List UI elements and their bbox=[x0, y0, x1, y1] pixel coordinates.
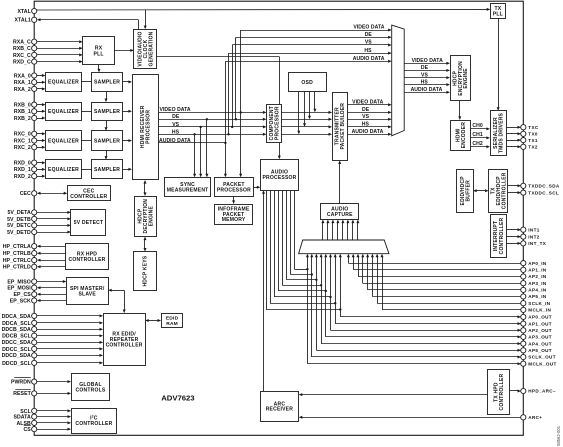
svg-text:TX1: TX1 bbox=[528, 138, 538, 143]
svg-text:RXD_0: RXD_0 bbox=[14, 161, 31, 167]
svg-text:PROCESSOR: PROCESSOR bbox=[146, 110, 152, 144]
svg-text:AP0_IN: AP0_IN bbox=[528, 261, 547, 266]
svg-text:ADV7623: ADV7623 bbox=[161, 393, 194, 402]
svg-text:RXC_0: RXC_0 bbox=[14, 132, 31, 138]
svg-text:EP_SCK: EP_SCK bbox=[10, 298, 31, 304]
svg-text:PWRDN: PWRDN bbox=[11, 380, 31, 386]
svg-text:EP_MISO: EP_MISO bbox=[7, 279, 30, 285]
svg-text:EP_MOSI: EP_MOSI bbox=[7, 286, 31, 292]
svg-text:DDCC_SCL: DDCC_SCL bbox=[2, 347, 31, 353]
svg-text:5V DETECT: 5V DETECT bbox=[74, 220, 104, 226]
svg-text:AP2_IN: AP2_IN bbox=[528, 274, 547, 279]
svg-text:HS: HS bbox=[364, 48, 372, 54]
svg-text:TXC: TXC bbox=[528, 125, 539, 130]
svg-text:5V_DETB: 5V_DETB bbox=[7, 217, 31, 223]
svg-text:RXC_C: RXC_C bbox=[13, 53, 31, 59]
svg-text:VIDEO DATA: VIDEO DATA bbox=[353, 25, 384, 31]
svg-text:RXD_C: RXD_C bbox=[13, 60, 31, 66]
svg-text:AP1_IN: AP1_IN bbox=[528, 268, 547, 273]
svg-text:HS: HS bbox=[421, 79, 429, 85]
svg-text:DDCB_SCL: DDCB_SCL bbox=[2, 334, 31, 340]
svg-text:MCLK_OUT: MCLK_OUT bbox=[528, 361, 556, 366]
svg-text:DDCD_SCL: DDCD_SCL bbox=[2, 361, 31, 367]
svg-text:TMDS DRIVERS: TMDS DRIVERS bbox=[499, 112, 505, 153]
svg-text:5V_DETC: 5V_DETC bbox=[7, 223, 31, 229]
svg-text:EQUALIZER: EQUALIZER bbox=[48, 109, 79, 115]
svg-text:SAMPLER: SAMPLER bbox=[94, 109, 120, 115]
svg-text:AP4_IN: AP4_IN bbox=[528, 288, 547, 293]
svg-text:HS: HS bbox=[362, 122, 370, 128]
svg-text:ENGINE: ENGINE bbox=[463, 68, 469, 89]
svg-text:HP_CTRLD: HP_CTRLD bbox=[3, 265, 31, 271]
svg-text:MEMORY: MEMORY bbox=[222, 217, 246, 223]
svg-text:SCLK_IN: SCLK_IN bbox=[528, 301, 550, 306]
svg-text:CONTROLLER: CONTROLLER bbox=[75, 421, 112, 427]
svg-text:CS: CS bbox=[23, 427, 31, 433]
svg-text:AP3_OUT: AP3_OUT bbox=[528, 335, 552, 340]
svg-text:PROCESSOR: PROCESSOR bbox=[275, 106, 281, 140]
svg-text:VIDEO DATA: VIDEO DATA bbox=[412, 58, 443, 64]
svg-text:PROCESSOR: PROCESSOR bbox=[217, 187, 251, 193]
svg-text:AUDIO DATA: AUDIO DATA bbox=[159, 138, 191, 144]
svg-text:EQUALIZER: EQUALIZER bbox=[48, 138, 79, 144]
svg-text:RXB_2: RXB_2 bbox=[14, 116, 31, 122]
svg-text:XTAL: XTAL bbox=[17, 9, 31, 15]
svg-text:TXDDC_SCL: TXDDC_SCL bbox=[528, 190, 559, 195]
svg-text:SCLK_OUT: SCLK_OUT bbox=[528, 355, 556, 360]
svg-text:DE: DE bbox=[172, 114, 180, 120]
svg-text:RXA_2: RXA_2 bbox=[14, 87, 31, 93]
svg-text:INT_TX: INT_TX bbox=[528, 241, 547, 246]
svg-text:PROCESSOR: PROCESSOR bbox=[262, 175, 296, 181]
svg-text:AUDIO DATA: AUDIO DATA bbox=[411, 87, 443, 93]
svg-text:GENERATION: GENERATION bbox=[149, 31, 155, 66]
svg-text:CH0: CH0 bbox=[472, 123, 482, 129]
svg-text:HS: HS bbox=[172, 129, 180, 135]
svg-text:OSD: OSD bbox=[301, 80, 313, 86]
svg-text:CH2: CH2 bbox=[472, 141, 482, 147]
svg-text:HPD_ARC–: HPD_ARC– bbox=[528, 389, 556, 394]
svg-text:MEASUREMENT: MEASUREMENT bbox=[167, 187, 209, 193]
svg-text:RXD_2: RXD_2 bbox=[14, 174, 31, 180]
svg-text:DDCC_SDA: DDCC_SDA bbox=[2, 340, 31, 346]
svg-text:TX0: TX0 bbox=[528, 132, 538, 137]
svg-text:RECEIVER: RECEIVER bbox=[266, 407, 294, 413]
svg-text:SLAVE: SLAVE bbox=[78, 291, 96, 297]
svg-text:TX2: TX2 bbox=[528, 145, 538, 150]
svg-text:CONTROLLER: CONTROLLER bbox=[70, 194, 107, 200]
svg-text:RXD_1: RXD_1 bbox=[14, 167, 31, 173]
svg-text:RAM: RAM bbox=[166, 321, 178, 327]
svg-text:HP_CTRLB: HP_CTRLB bbox=[3, 251, 31, 257]
svg-text:5V_DETD: 5V_DETD bbox=[7, 230, 31, 236]
svg-text:TXDDC_SDA: TXDDC_SDA bbox=[528, 184, 560, 189]
svg-text:RXB_C: RXB_C bbox=[13, 46, 31, 52]
svg-text:DE: DE bbox=[362, 107, 370, 113]
svg-text:CONTROLLER: CONTROLLER bbox=[106, 343, 143, 349]
svg-text:PACKET BUILDER: PACKET BUILDER bbox=[340, 103, 346, 150]
svg-text:VS: VS bbox=[362, 114, 369, 120]
svg-text:EQUALIZER: EQUALIZER bbox=[48, 167, 79, 173]
svg-text:ENGINE: ENGINE bbox=[149, 206, 155, 227]
svg-text:CONTROLLER: CONTROLLER bbox=[499, 374, 505, 411]
svg-text:PLL: PLL bbox=[493, 11, 503, 17]
svg-text:CEC: CEC bbox=[20, 191, 31, 197]
svg-text:RXA_C: RXA_C bbox=[13, 40, 31, 46]
svg-text:DE: DE bbox=[365, 32, 373, 38]
svg-text:CONTROLLER: CONTROLLER bbox=[499, 217, 505, 254]
svg-text:CH1: CH1 bbox=[472, 132, 482, 138]
svg-text:SAMPLER: SAMPLER bbox=[94, 167, 120, 173]
svg-text:AP2_OUT: AP2_OUT bbox=[528, 328, 552, 333]
svg-text:AP5_OUT: AP5_OUT bbox=[528, 348, 552, 353]
svg-text:VS: VS bbox=[365, 40, 372, 46]
svg-text:AUDIO DATA: AUDIO DATA bbox=[353, 56, 385, 62]
svg-text:HDCP KEYS: HDCP KEYS bbox=[143, 255, 149, 286]
svg-text:AUDIO DATA: AUDIO DATA bbox=[352, 129, 384, 135]
svg-text:HP_CTRLA: HP_CTRLA bbox=[3, 244, 31, 250]
svg-text:DDCA_SDA: DDCA_SDA bbox=[2, 314, 31, 320]
svg-text:DDCB_SDA: DDCB_SDA bbox=[2, 327, 31, 333]
svg-text:EP_CS: EP_CS bbox=[14, 292, 32, 298]
svg-text:5V_DETA: 5V_DETA bbox=[7, 210, 31, 216]
svg-text:SDATA: SDATA bbox=[13, 415, 31, 421]
svg-text:ENCODER: ENCODER bbox=[461, 122, 467, 149]
svg-text:ALSB: ALSB bbox=[16, 421, 31, 427]
svg-text:INT2: INT2 bbox=[528, 234, 539, 239]
svg-text:VS: VS bbox=[172, 122, 179, 128]
svg-text:RXB_0: RXB_0 bbox=[14, 102, 31, 108]
svg-text:RXC_1: RXC_1 bbox=[14, 138, 31, 144]
svg-text:BUFFER: BUFFER bbox=[465, 180, 471, 202]
svg-text:MCLK_IN: MCLK_IN bbox=[528, 308, 551, 313]
svg-text:RXA_1: RXA_1 bbox=[14, 80, 31, 86]
svg-text:INT1: INT1 bbox=[528, 227, 539, 232]
svg-text:CONTROLLER: CONTROLLER bbox=[501, 172, 507, 209]
svg-text:SAMPLER: SAMPLER bbox=[94, 80, 120, 86]
svg-text:VIDEO DATA: VIDEO DATA bbox=[352, 100, 383, 106]
svg-text:SAMPLER: SAMPLER bbox=[94, 138, 120, 144]
svg-text:DDCA_SCL: DDCA_SCL bbox=[2, 321, 31, 327]
svg-text:RESET: RESET bbox=[13, 391, 31, 397]
svg-text:08562-001: 08562-001 bbox=[556, 425, 561, 446]
svg-text:VS: VS bbox=[421, 72, 428, 78]
svg-text:XTAL1: XTAL1 bbox=[15, 18, 31, 24]
svg-text:AP3_IN: AP3_IN bbox=[528, 281, 547, 286]
svg-text:CONTROLS: CONTROLS bbox=[76, 388, 106, 394]
svg-text:RXB_1: RXB_1 bbox=[14, 109, 31, 115]
svg-text:DE: DE bbox=[421, 65, 429, 71]
svg-text:PLL: PLL bbox=[94, 51, 104, 57]
svg-text:AP4_OUT: AP4_OUT bbox=[528, 341, 552, 346]
svg-text:EDID: EDID bbox=[166, 316, 179, 322]
svg-text:AP5_IN: AP5_IN bbox=[528, 294, 547, 299]
svg-text:EQUALIZER: EQUALIZER bbox=[48, 80, 79, 86]
svg-text:AP0_OUT: AP0_OUT bbox=[528, 315, 552, 320]
svg-text:ARC+: ARC+ bbox=[528, 415, 542, 420]
svg-text:CAPTURE: CAPTURE bbox=[327, 212, 353, 218]
svg-text:RXC_2: RXC_2 bbox=[14, 145, 31, 151]
svg-text:VIDEO DATA: VIDEO DATA bbox=[160, 107, 191, 113]
svg-text:DDCD_SDA: DDCD_SDA bbox=[2, 353, 31, 359]
svg-text:RXA_0: RXA_0 bbox=[14, 73, 31, 79]
svg-text:CONTROLLER: CONTROLLER bbox=[68, 257, 105, 263]
svg-text:HP_CTRLC: HP_CTRLC bbox=[3, 258, 31, 264]
svg-text:AP1_OUT: AP1_OUT bbox=[528, 321, 552, 326]
